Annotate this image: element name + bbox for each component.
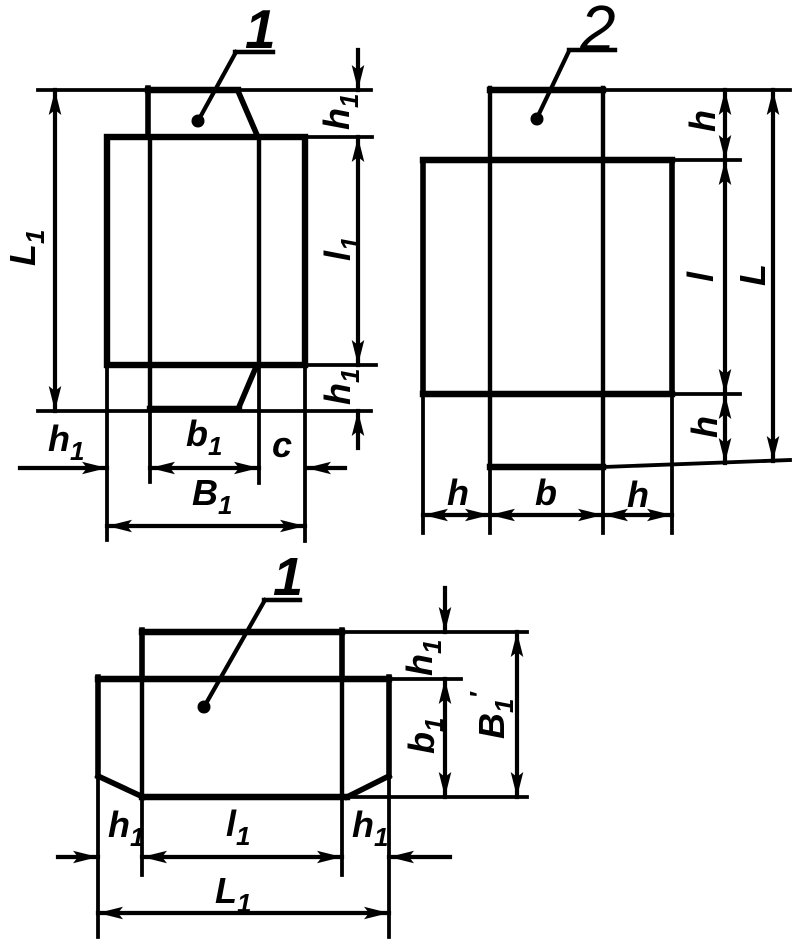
dim h1 bottom-right arrow fig3 <box>389 855 450 859</box>
svg-text:l1: l1 <box>226 803 250 851</box>
flap2 bottom edge <box>490 464 603 470</box>
wing left edge <box>420 160 426 394</box>
svg-text:L1: L1 <box>2 230 50 266</box>
leader 2 dot <box>531 113 544 126</box>
leader 1b callout line <box>204 600 265 707</box>
dimension L1 fig3 <box>98 911 389 915</box>
flap1 right slant <box>238 91 257 135</box>
flap2 top edge <box>490 87 603 93</box>
fold line x=150 <box>148 137 152 365</box>
svg-text:b1: b1 <box>401 718 449 754</box>
dimension b1 line <box>150 466 259 470</box>
extension y=160 right <box>672 158 740 162</box>
extension x=423 down <box>421 394 425 533</box>
flap1b right slant <box>239 367 256 407</box>
band bottom edge <box>423 391 672 397</box>
svg-text:1: 1 <box>245 0 276 60</box>
body3 right slant <box>347 776 389 797</box>
dimension B1' fig3 <box>515 632 519 797</box>
flap1b bottom edge <box>150 406 239 412</box>
flap3 right edge <box>339 630 345 679</box>
svg-text:h1: h1 <box>108 804 144 852</box>
flap1 top edge <box>148 87 238 93</box>
body3 right edge <box>386 677 392 776</box>
flap1b left edge <box>148 365 152 409</box>
svg-text:l: l <box>680 271 721 282</box>
svg-text:h: h <box>682 110 723 132</box>
svg-text:l1: l1 <box>317 237 365 261</box>
bottom extension x=259 <box>257 365 261 483</box>
fold line x=142 <box>140 679 144 797</box>
svg-text:b1: b1 <box>186 413 222 461</box>
extension y=797 right <box>347 795 527 799</box>
dim h1 bottom-right arrow <box>356 411 360 448</box>
fold line x=259 <box>257 137 261 365</box>
extension x=142 down <box>140 797 144 875</box>
leader 1b underline <box>264 598 300 602</box>
bottom extension x=107 <box>105 365 109 540</box>
extension y=467 right <box>603 460 790 467</box>
fold/edge x=490 <box>488 88 492 467</box>
dimension h bottom-right <box>723 394 727 463</box>
dimension L <box>771 90 775 461</box>
dimension b1 fig3 <box>443 679 447 797</box>
body3 left edge <box>95 677 101 776</box>
extension line y=90 full width <box>38 88 371 92</box>
flap3 left edge <box>139 630 145 679</box>
wing right edge <box>669 160 675 394</box>
extension x=490 down <box>488 467 492 533</box>
dimension b <box>490 513 603 517</box>
dim h1 top-right arrow <box>356 50 360 90</box>
svg-text:L1: L1 <box>215 870 251 918</box>
svg-text:B1: B1 <box>192 472 232 520</box>
svg-text:L: L <box>732 264 773 286</box>
svg-text:h1: h1 <box>317 369 365 405</box>
dimension l1 fig3 <box>142 855 342 859</box>
leader 2 callout line <box>537 51 569 118</box>
bottom extension x=305 <box>303 365 307 541</box>
svg-text:h: h <box>684 416 725 438</box>
dimension l1 line <box>356 137 360 365</box>
leader 1 dot <box>192 115 205 128</box>
dim h1 bottom-left arrow fig3 <box>58 855 98 859</box>
extension x=672 down <box>670 394 674 533</box>
band top edge <box>423 157 672 163</box>
body1 top extension right <box>305 135 372 139</box>
extension x=98 down <box>96 780 100 937</box>
dimension L1 line <box>53 90 57 411</box>
svg-text:h: h <box>627 474 649 515</box>
svg-text:2: 2 <box>579 0 616 64</box>
extension y=632 right <box>342 630 527 634</box>
dimension h bottom-right fig2 <box>603 513 672 517</box>
leader 1 underline <box>235 50 273 54</box>
svg-text:b: b <box>535 472 557 513</box>
svg-text:c: c <box>272 424 292 465</box>
extension x=342 down <box>340 797 344 875</box>
extension x=603 down <box>601 467 605 533</box>
dimension B1 line <box>107 524 305 528</box>
leader 1 callout line <box>198 52 236 121</box>
flap3 top edge <box>142 629 342 635</box>
leader 2 underline <box>569 48 615 52</box>
fold line x=342 <box>340 679 344 797</box>
extension line y=411 full width <box>38 409 371 413</box>
svg-text:h1: h1 <box>399 640 447 676</box>
dim h1 top arrow fig3 <box>443 588 447 632</box>
body3 top edge <box>98 676 389 682</box>
svg-text:h1: h1 <box>352 804 388 852</box>
body3 left slant <box>98 776 143 797</box>
dimension h top-right <box>723 90 727 160</box>
svg-text:1: 1 <box>273 547 303 607</box>
dimension h bottom-left fig2 <box>423 513 490 517</box>
body1 bottom extension right <box>305 363 376 367</box>
extension x=389 down <box>387 780 391 937</box>
svg-text:h: h <box>447 472 469 513</box>
bottom extension x=150 <box>148 411 152 482</box>
svg-text:h1: h1 <box>316 94 364 130</box>
body3 bottom edge <box>142 794 347 800</box>
dim h1 bottom-left arrow <box>20 466 107 470</box>
fold/edge x=603 <box>601 88 605 467</box>
extension y=394 right <box>672 392 740 396</box>
body1 outline <box>107 137 305 365</box>
flap1 left edge <box>145 88 151 137</box>
dim c right arrow <box>306 466 345 470</box>
svg-text:h1: h1 <box>48 418 84 466</box>
extension y=90 right <box>603 88 790 92</box>
dimension l <box>723 160 727 394</box>
svg-text:B1′: B1′ <box>464 691 519 739</box>
leader 1b dot <box>198 701 211 714</box>
extension y=679 right <box>389 677 461 681</box>
